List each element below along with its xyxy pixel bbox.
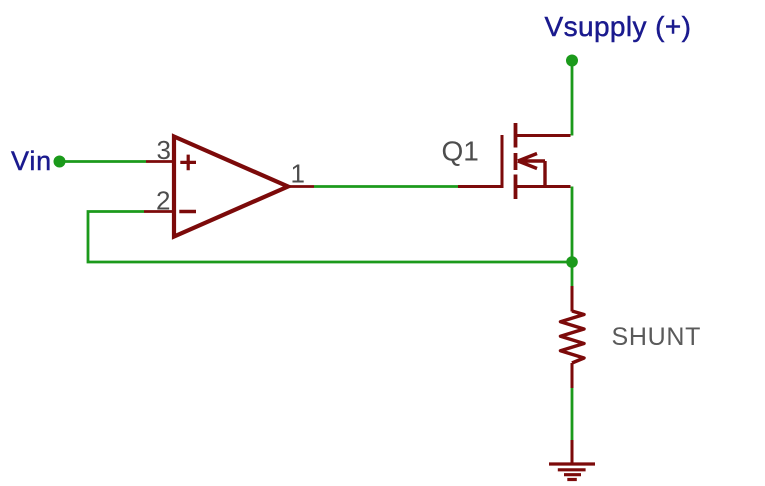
op-amp plus symbol <box>180 155 196 171</box>
wire junction to shunt <box>571 262 574 286</box>
wire shunt to ground <box>571 388 574 440</box>
pin stub pin 2 <box>144 210 174 213</box>
ground bar 1 <box>549 462 595 465</box>
ground stub <box>571 440 574 464</box>
ground bar 3 <box>564 473 581 476</box>
svg-text:Vin: Vin <box>11 146 52 176</box>
wire drain to Vsupply <box>571 61 574 136</box>
node Vin dot <box>54 156 66 168</box>
svg-text:Q1: Q1 <box>442 136 479 167</box>
transistor Q1 channel dashes <box>514 123 518 199</box>
pin stub output pin 1 <box>288 185 314 188</box>
op-amp U1 triangle <box>174 137 288 237</box>
wire source to junction <box>571 187 574 263</box>
svg-text:1: 1 <box>291 159 305 189</box>
ground bar 4 <box>567 478 577 481</box>
svg-text:3: 3 <box>157 135 171 165</box>
resistor SHUNT zigzag <box>561 311 585 363</box>
transistor Q1 source line <box>516 185 571 188</box>
transistor Q1 gate pin and gate bar <box>458 135 502 187</box>
pin stub shunt top <box>571 286 574 312</box>
transistor Q1 drain line <box>516 134 571 137</box>
transistor Q1 bulk arrow <box>518 154 545 187</box>
pin stub pin 3 <box>146 160 174 163</box>
wire Vin to pin 3 <box>60 160 147 163</box>
node Vsupply dot <box>566 55 578 67</box>
wire output to gate <box>314 185 458 188</box>
wire feedback from pin 2 to junction <box>88 212 572 263</box>
op-amp minus symbol <box>179 210 196 214</box>
ground bar 2 <box>558 468 586 471</box>
svg-text:Vsupply (+): Vsupply (+) <box>545 11 692 42</box>
junction dot <box>566 256 578 268</box>
svg-text:SHUNT: SHUNT <box>612 323 702 351</box>
pin stub shunt bottom <box>571 363 574 388</box>
